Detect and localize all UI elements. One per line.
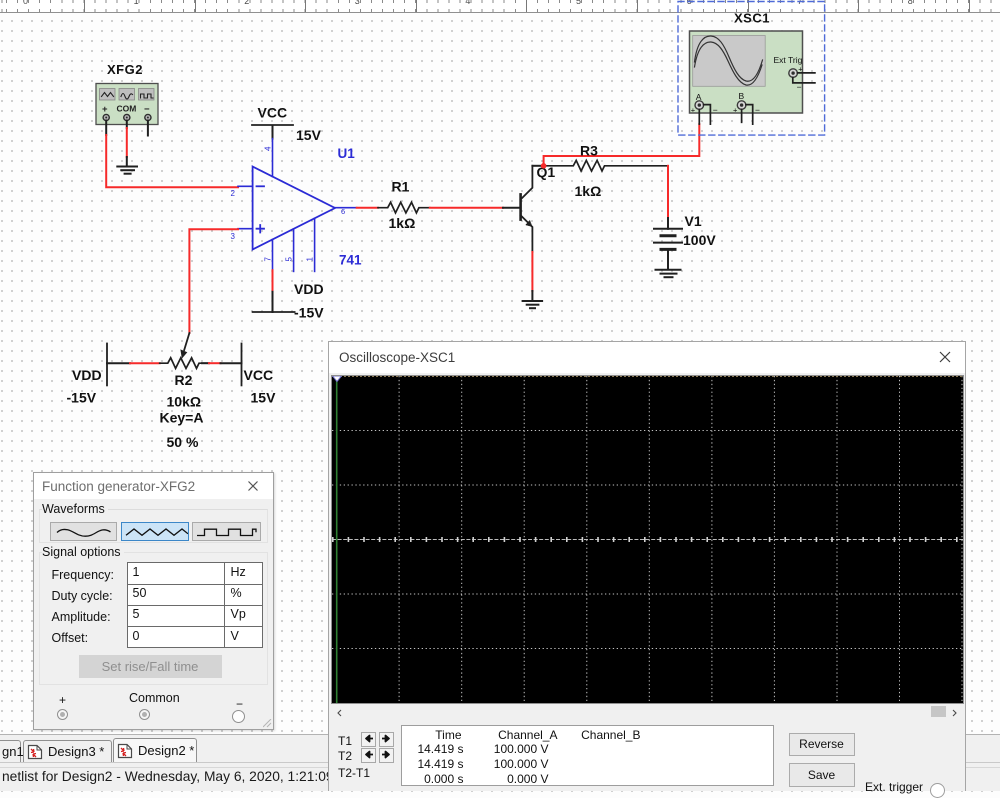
wire R2 right red bbox=[209, 362, 221, 364]
ground below XFG2 bbox=[117, 167, 137, 174]
potentiometer R2 body bbox=[160, 358, 208, 369]
wire collector top bbox=[532, 165, 543, 167]
svg-text:−: − bbox=[713, 105, 718, 115]
wire R2 left red bbox=[130, 362, 160, 364]
svg-text:−: − bbox=[797, 82, 802, 92]
svg-text:R1: R1 bbox=[392, 179, 410, 195]
table bbox=[52, 565, 162, 650]
waveform group box bbox=[39, 509, 268, 543]
R2 wiper arrow bbox=[184, 333, 189, 350]
partial tab gn1 bbox=[0, 740, 21, 763]
scrollbar bbox=[331, 705, 963, 719]
svg-text:7: 7 bbox=[264, 257, 273, 262]
battery V1 bbox=[654, 229, 682, 270]
svg-text:VDD: VDD bbox=[294, 281, 324, 297]
svg-text:U1: U1 bbox=[338, 146, 356, 161]
svg-text:B: B bbox=[739, 91, 745, 101]
svg-text:3: 3 bbox=[231, 232, 236, 241]
svg-text:XSC1: XSC1 bbox=[734, 11, 770, 26]
svg-text:+: + bbox=[733, 106, 738, 115]
svg-text:VCC: VCC bbox=[244, 367, 274, 383]
wire V1 top stub bbox=[667, 218, 669, 229]
svg-text:VCC: VCC bbox=[258, 105, 288, 121]
wire XFG2 plus to opamp pin2 (red) bbox=[106, 135, 238, 187]
svg-text:1: 1 bbox=[306, 257, 315, 262]
wire XFG2 COM to ground bbox=[126, 157, 128, 166]
svg-text:Key=A: Key=A bbox=[160, 410, 204, 426]
wire XFG2 minus stub bbox=[147, 121, 149, 136]
wire Q1 emitter to ground bbox=[531, 291, 533, 301]
function generator dialog bbox=[33, 472, 274, 730]
svg-text:50 %: 50 % bbox=[167, 434, 199, 450]
svg-text:Ext Trig: Ext Trig bbox=[774, 55, 803, 65]
oscilloscope window bbox=[328, 341, 966, 791]
arrow buttons bbox=[361, 732, 376, 747]
svg-text:−: − bbox=[755, 105, 760, 115]
svg-text:1kΩ: 1kΩ bbox=[575, 183, 602, 199]
op-amp plus input mark bbox=[257, 225, 265, 233]
svg-text:COM: COM bbox=[117, 104, 137, 114]
XSC1 selection box bbox=[678, 2, 825, 136]
pin 4 wire bbox=[272, 126, 274, 139]
svg-text:-15V: -15V bbox=[294, 305, 324, 321]
bottom panel bbox=[329, 719, 965, 792]
svg-text:R3: R3 bbox=[580, 143, 598, 159]
wire pin3 to R2 wiper (red) bbox=[189, 229, 238, 333]
tab Design2 (active) bbox=[113, 738, 197, 763]
svg-text:VDD: VDD bbox=[72, 367, 102, 383]
svg-text:-15V: -15V bbox=[67, 390, 97, 406]
wire base lead bbox=[503, 207, 520, 209]
transistor Q1 bbox=[521, 166, 533, 252]
svg-text:4: 4 bbox=[264, 146, 273, 151]
set rise/fall button bbox=[79, 655, 222, 678]
ground below Q1 bbox=[523, 301, 542, 308]
svg-text:R2: R2 bbox=[175, 372, 193, 388]
potentiometer R2 left rail bar bbox=[106, 344, 108, 386]
svg-text:6: 6 bbox=[341, 207, 345, 216]
wire node to scope A (red) bbox=[544, 124, 700, 166]
svg-text:V1: V1 bbox=[685, 213, 702, 229]
svg-text:+: + bbox=[102, 104, 108, 115]
svg-text:741: 741 bbox=[339, 253, 362, 268]
pin 2 stub bbox=[238, 185, 253, 187]
svg-text:1kΩ: 1kΩ bbox=[389, 215, 416, 231]
pin 1 stub bbox=[314, 218, 316, 271]
svg-text:2: 2 bbox=[231, 189, 236, 198]
svg-text:15V: 15V bbox=[296, 127, 322, 143]
pin 3 stub bbox=[238, 228, 253, 230]
title bar bbox=[34, 473, 273, 499]
VDD rail bar bbox=[253, 311, 295, 313]
svg-text:XFG2: XFG2 bbox=[107, 62, 143, 77]
pin 7 wire bbox=[272, 240, 274, 271]
svg-text:5: 5 bbox=[285, 257, 294, 262]
svg-text:100V: 100V bbox=[683, 232, 716, 248]
resize grip bbox=[263, 719, 272, 728]
wire XFG2 plus stub bbox=[105, 121, 107, 135]
black screen bbox=[331, 375, 964, 704]
signal options group box bbox=[39, 552, 268, 685]
svg-text:10kΩ: 10kΩ bbox=[167, 394, 202, 410]
pin 5 stub bbox=[293, 229, 295, 272]
tab Design3 bbox=[23, 740, 112, 763]
measurement box bbox=[401, 725, 774, 786]
op-amp minus input mark bbox=[257, 185, 265, 187]
junction node bbox=[541, 163, 547, 169]
wire R2 left black bbox=[107, 362, 130, 364]
Reverse button bbox=[789, 733, 855, 756]
function generator XFG2 body bbox=[96, 84, 158, 125]
wire XFG2 COM red bbox=[126, 128, 128, 157]
VCC rail bar bbox=[252, 124, 293, 126]
svg-text:15V: 15V bbox=[251, 390, 277, 406]
Save button bbox=[789, 763, 855, 787]
svg-text:+: + bbox=[691, 106, 696, 115]
T labels bbox=[338, 734, 352, 748]
wire scope A stub black bbox=[698, 109, 700, 124]
resistor R1 bbox=[378, 202, 430, 213]
tab bar bbox=[0, 734, 1000, 763]
oscilloscope XSC1 body bbox=[690, 31, 815, 124]
pin 6 stub bbox=[335, 207, 357, 209]
svg-text:−: − bbox=[144, 104, 150, 115]
resistor R3 bbox=[544, 160, 668, 171]
waveform buttons bbox=[50, 522, 118, 541]
wire pin6 out (red) bbox=[357, 207, 378, 209]
terminals bbox=[59, 693, 66, 707]
status bar bbox=[0, 762, 1000, 791]
op-amp U1 triangle bbox=[253, 167, 335, 250]
wire R2 right black bbox=[202, 362, 209, 364]
Ext trigger bbox=[865, 780, 923, 794]
wire Q1 emitter red bbox=[531, 252, 533, 291]
wire R1 to Q1 base (red) bbox=[430, 207, 503, 209]
ground below V1 bbox=[656, 270, 681, 277]
title bar bbox=[329, 342, 965, 373]
wire XFG2 COM stub bbox=[126, 121, 128, 128]
wire R3 to V1 (red) bbox=[667, 166, 669, 218]
top ruler bbox=[0, 0, 1000, 13]
wire R2 right black2 bbox=[221, 362, 242, 364]
potentiometer R2 right rail bar bbox=[241, 344, 243, 386]
